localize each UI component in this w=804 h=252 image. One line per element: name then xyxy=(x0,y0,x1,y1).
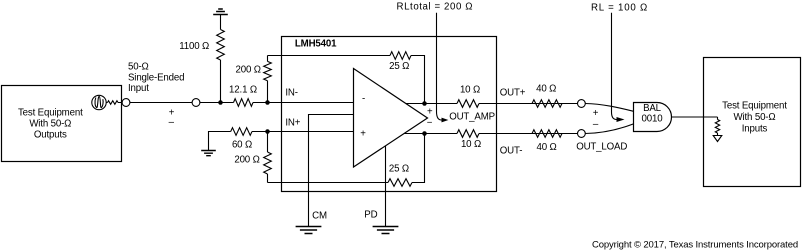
svg-text:200 Ω: 200 Ω xyxy=(234,154,259,165)
resistor 10 ohm top xyxy=(457,85,480,108)
junction node C xyxy=(265,129,270,134)
LMH5401 device box U1 xyxy=(282,37,497,192)
svg-text:25 Ω: 25 Ω xyxy=(389,164,409,175)
connector circle bottom at OUT_LOAD xyxy=(578,130,586,138)
svg-text:Outputs: Outputs xyxy=(34,130,67,141)
svg-text:60 Ω: 60 Ω xyxy=(232,139,252,150)
resistor 1100 ohm xyxy=(179,15,224,103)
resistor 40 ohm top xyxy=(532,84,562,108)
svg-text:+: + xyxy=(360,129,366,140)
svg-text:IN+: IN+ xyxy=(285,118,300,129)
svg-text:RL = 100 Ω: RL = 100 Ω xyxy=(591,2,648,13)
svg-text:IN-: IN- xyxy=(285,88,297,99)
svg-text:+: + xyxy=(593,108,599,119)
wire connector to 12.1 ohm xyxy=(200,102,234,104)
svg-text:10 Ω: 10 Ω xyxy=(460,85,480,96)
svg-text:12.1 Ω: 12.1 Ω xyxy=(229,85,257,96)
resistor 25 ohm top feedback xyxy=(389,52,411,72)
svg-text:–: – xyxy=(593,119,599,130)
resistor RG 12.1 ohm xyxy=(229,85,257,107)
svg-text:200 Ω: 200 Ω xyxy=(236,65,261,76)
resistor 25 ohm bottom feedback xyxy=(388,164,412,187)
svg-text:+: + xyxy=(427,106,433,117)
svg-text:PD: PD xyxy=(364,210,377,221)
wire port to input connector xyxy=(130,102,192,104)
output polarity signs at apex xyxy=(427,106,433,128)
svg-text:LMH5401: LMH5401 xyxy=(295,38,337,49)
svg-text:0010: 0010 xyxy=(642,113,664,124)
RL = 100 ohm callout xyxy=(591,2,648,122)
svg-text:25 Ω: 25 Ω xyxy=(389,61,409,72)
PD ground xyxy=(373,227,399,234)
CM pin wire xyxy=(309,115,354,227)
open ground triangle in right box xyxy=(713,136,722,142)
amplifier triangle U1 xyxy=(354,69,428,168)
source series resistor xyxy=(108,101,119,105)
svg-text:Single-Ended: Single-Ended xyxy=(128,72,184,83)
svg-text:−: − xyxy=(427,117,433,128)
junction node B xyxy=(265,100,270,105)
curved wire bottom circle to balun xyxy=(585,124,633,134)
right test equipment box xyxy=(704,58,801,187)
svg-text:Test Equipment: Test Equipment xyxy=(722,101,787,112)
signal source V1 xyxy=(92,95,106,109)
resistor 60 ohm xyxy=(209,128,253,151)
left test equipment box xyxy=(2,86,122,162)
resistor 10 ohm bottom xyxy=(457,130,481,150)
svg-text:10 Ω: 10 Ω xyxy=(461,139,481,150)
top feedback wire xyxy=(268,56,425,104)
svg-text:RLtotal = 200 Ω: RLtotal = 200 Ω xyxy=(397,2,474,13)
balun BAL-0010 xyxy=(634,103,672,132)
svg-text:40 Ω: 40 Ω xyxy=(536,84,556,95)
input connector circle xyxy=(192,99,200,107)
PD pin wire xyxy=(385,146,387,227)
svg-text:Inputs: Inputs xyxy=(742,123,768,134)
polarity labels at input xyxy=(169,108,175,128)
svg-text:40 Ω: 40 Ω xyxy=(537,142,557,153)
svg-text:OUT_AMP: OUT_AMP xyxy=(449,112,495,123)
wire source to port xyxy=(106,102,122,104)
inverted ground above 1100 ohm xyxy=(213,9,228,15)
CM ground xyxy=(296,227,322,234)
internal 50 ohm load resistor xyxy=(715,117,719,136)
bottom feedback wire xyxy=(268,134,425,183)
svg-text:Test Equipment: Test Equipment xyxy=(18,107,83,118)
svg-text:OUT-: OUT- xyxy=(500,146,523,157)
resistor 200 ohm upper xyxy=(236,56,272,103)
junction node A xyxy=(218,100,223,105)
wire 12.1 ohm to IN- node xyxy=(253,102,354,104)
connector circle top at OUT_LOAD xyxy=(578,100,586,108)
curved wire top circle to balun xyxy=(585,104,633,112)
polarity labels at OUT_LOAD xyxy=(593,108,599,130)
label 50-ohm single-ended input xyxy=(128,62,184,95)
svg-text:CM: CM xyxy=(312,210,327,221)
resistor 40 ohm bottom xyxy=(532,130,562,153)
svg-text:1100 Ω: 1100 Ω xyxy=(179,41,209,52)
svg-text:With 50-Ω: With 50-Ω xyxy=(734,112,776,123)
wire balun to right box xyxy=(672,116,718,118)
OUT_AMP callout arrow and RLtotal label xyxy=(397,2,474,123)
svg-text:Input: Input xyxy=(128,83,149,94)
svg-text:–: – xyxy=(169,117,175,128)
svg-text:-: - xyxy=(362,93,365,104)
port circle at left box output xyxy=(122,99,130,107)
junction node OUT+ xyxy=(422,101,427,106)
svg-text:With 50-Ω: With 50-Ω xyxy=(29,119,71,130)
svg-text:Copyright © 2017, Texas Instru: Copyright © 2017, Texas Instruments Inco… xyxy=(592,240,798,251)
wire 60 ohm to IN+ node xyxy=(252,131,354,133)
ground left of 60 ohm xyxy=(201,151,216,156)
resistor 200 ohm lower xyxy=(234,132,271,183)
svg-text:50-Ω: 50-Ω xyxy=(128,62,149,73)
junction node OUT- xyxy=(422,131,427,136)
top output wire OUT+ xyxy=(406,103,578,105)
bottom output wire OUT- xyxy=(404,133,577,135)
svg-text:OUT_LOAD: OUT_LOAD xyxy=(576,141,627,152)
svg-text:OUT+: OUT+ xyxy=(500,88,526,99)
